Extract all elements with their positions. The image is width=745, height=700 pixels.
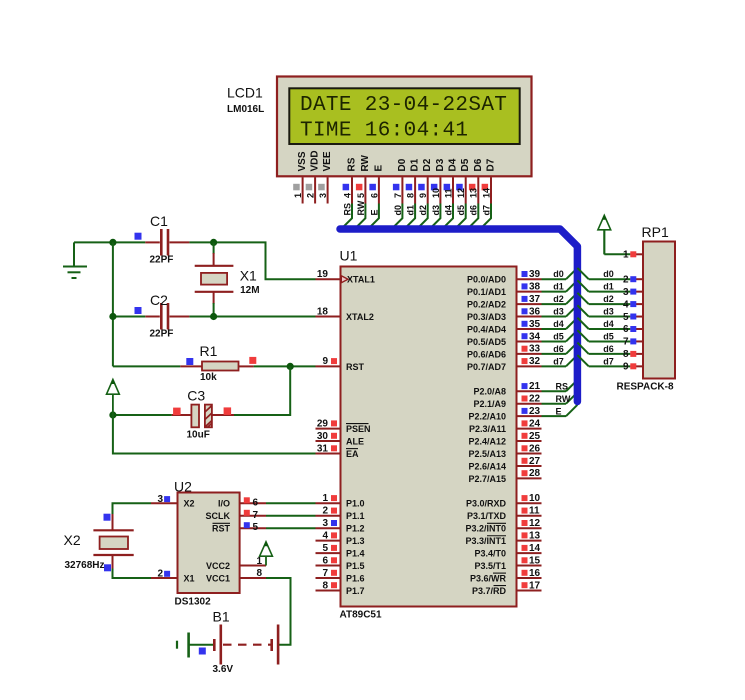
svg-text:25: 25 xyxy=(529,431,541,442)
U1 pin 16 P3.6/WR xyxy=(517,577,542,579)
svg-text:P1.2: P1.2 xyxy=(346,524,365,534)
svg-text:P0.2/AD2: P0.2/AD2 xyxy=(467,300,506,310)
U1 pin 15 P3.5/T1 xyxy=(517,565,542,567)
svg-text:d3: d3 xyxy=(553,307,564,317)
RP1 pin 4 xyxy=(630,303,643,305)
svg-text:P2.2/A10: P2.2/A10 xyxy=(468,412,506,422)
svg-text:d0: d0 xyxy=(553,269,564,279)
svg-text:22PF: 22PF xyxy=(150,329,174,340)
wire crystal to U2 X1 xyxy=(113,569,152,579)
svg-text:10: 10 xyxy=(431,188,441,198)
svg-text:RESPACK-8: RESPACK-8 xyxy=(617,382,674,393)
wire bus to RP1 pins xyxy=(577,268,588,279)
LCD pin 4 state square xyxy=(343,184,350,191)
wire U1 P0.1 to bus xyxy=(542,291,567,293)
wire X1 top stem xyxy=(213,242,215,254)
U1 pin 19 XTAL1 xyxy=(316,278,341,280)
wire LCD pin 7 to bus xyxy=(392,204,403,230)
svg-text:24: 24 xyxy=(529,418,541,429)
svg-text:38: 38 xyxy=(529,281,541,292)
U1 pin 27 P2.6/A14 xyxy=(517,465,542,467)
svg-text:d2: d2 xyxy=(553,294,564,304)
svg-text:1: 1 xyxy=(322,493,328,504)
svg-text:12: 12 xyxy=(456,188,466,198)
svg-text:4: 4 xyxy=(322,530,328,541)
U1 pin 33 P0.6/AD6 xyxy=(517,353,542,355)
wire U2 X2 to crystal xyxy=(113,503,152,515)
svg-text:E: E xyxy=(369,209,379,215)
svg-text:d2: d2 xyxy=(603,294,614,304)
svg-text:28: 28 xyxy=(529,468,541,479)
wire power to RP1 pin 1 xyxy=(603,230,605,255)
U1 pin 17 P3.7/RD xyxy=(517,589,542,591)
U2 pin 8 VCC1 xyxy=(240,577,266,579)
U1 pin 23 P2.2/A10 xyxy=(517,415,542,417)
svg-text:3.6V: 3.6V xyxy=(213,664,234,675)
U1 pin 29 PSEN xyxy=(316,428,341,430)
U1 pin 8 P1.7 xyxy=(316,589,341,591)
svg-text:E: E xyxy=(373,165,384,172)
svg-text:d4: d4 xyxy=(443,205,453,216)
svg-text:12: 12 xyxy=(529,518,541,529)
LCD pin 12 state square xyxy=(456,184,463,191)
svg-text:P2.3/A11: P2.3/A11 xyxy=(469,424,506,434)
U1 pin 39 P0.0/AD0 xyxy=(517,278,542,280)
svg-text:7: 7 xyxy=(253,510,259,521)
X2 state square bottom xyxy=(104,564,111,571)
svg-text:1: 1 xyxy=(293,193,303,198)
svg-text:d4: d4 xyxy=(553,319,564,329)
wire X1 bottom stem xyxy=(213,303,215,317)
LCD pin 11 stub xyxy=(452,177,454,203)
svg-text:10k: 10k xyxy=(200,372,217,383)
LCD pin 4 stub xyxy=(351,177,353,203)
U1 pin 35 P0.4/AD4 xyxy=(517,328,542,330)
svg-text:d2: d2 xyxy=(418,205,428,216)
wire LCD pin 14 to bus xyxy=(480,204,491,230)
svg-text:d6: d6 xyxy=(553,344,564,354)
svg-text:E: E xyxy=(556,407,562,417)
junction node A (C1 top-left) xyxy=(109,239,116,246)
svg-text:d3: d3 xyxy=(603,307,614,317)
svg-text:d3: d3 xyxy=(431,205,441,216)
svg-text:PSEN: PSEN xyxy=(346,424,371,434)
svg-text:3: 3 xyxy=(322,518,328,529)
wire LCD pin 10 to bus xyxy=(430,204,441,230)
wire U2 VCC1 to battery xyxy=(266,578,291,645)
battery B1 terminal stub xyxy=(176,641,178,649)
svg-text:P2.7/A15: P2.7/A15 xyxy=(468,474,506,484)
svg-text:C3: C3 xyxy=(187,388,205,404)
wire LCD pin 11 to bus xyxy=(442,204,453,230)
svg-text:7: 7 xyxy=(393,193,403,198)
U1 pin 24 P2.3/A11 xyxy=(517,428,542,430)
svg-text:P1.7: P1.7 xyxy=(346,586,365,596)
microcontroller U1 body xyxy=(341,267,517,607)
svg-text:D0: D0 xyxy=(397,158,408,171)
crystal X1 xyxy=(213,253,215,266)
wire U1 P0.7 to bus xyxy=(542,365,567,367)
wire U2 SCLK to U1 P1.1 xyxy=(266,515,316,517)
U1 pin 11 P3.1/TXD xyxy=(517,515,542,517)
wire LCD pin 12 to bus xyxy=(455,204,466,230)
svg-text:P3.6/WR: P3.6/WR xyxy=(470,573,507,583)
svg-text:P0.4/AD4: P0.4/AD4 xyxy=(467,324,506,334)
svg-text:LCD1: LCD1 xyxy=(227,85,263,101)
U1 pin 12 P3.2/INT0 xyxy=(517,527,542,529)
wire U1 P0.6 to bus xyxy=(542,353,567,355)
svg-text:P1.5: P1.5 xyxy=(346,561,365,571)
junction RST node xyxy=(287,363,294,370)
svg-text:U1: U1 xyxy=(340,248,358,264)
svg-text:d4: d4 xyxy=(603,319,614,329)
svg-text:32768Hz: 32768Hz xyxy=(65,560,105,571)
svg-text:RW: RW xyxy=(356,200,366,215)
svg-text:D3: D3 xyxy=(435,158,446,171)
svg-text:D7: D7 xyxy=(486,158,497,171)
wire U1 P0.3 to bus xyxy=(542,316,567,318)
wire LCD pin 8 to bus xyxy=(404,204,415,230)
svg-text:R1: R1 xyxy=(200,343,218,359)
LCD pin 8 state square xyxy=(406,184,413,191)
svg-text:27: 27 xyxy=(529,456,541,467)
svg-text:7: 7 xyxy=(623,337,629,348)
svg-text:RS: RS xyxy=(556,382,569,392)
U1 pin 31 EA xyxy=(316,453,341,455)
svg-text:D4: D4 xyxy=(448,158,459,171)
U2 pin 5 RST xyxy=(240,527,266,529)
svg-text:7: 7 xyxy=(322,568,328,579)
svg-text:3: 3 xyxy=(318,193,328,198)
svg-text:P2.6/A14: P2.6/A14 xyxy=(468,461,506,471)
svg-text:23: 23 xyxy=(529,406,541,417)
LCD pin 10 state square xyxy=(431,184,438,191)
svg-text:35: 35 xyxy=(529,319,541,330)
svg-text:U2: U2 xyxy=(174,479,192,495)
svg-text:EA: EA xyxy=(346,449,359,459)
svg-text:XTAL2: XTAL2 xyxy=(346,312,374,322)
B1 state square xyxy=(199,648,206,655)
U1 pin 5 P1.4 xyxy=(316,552,341,554)
svg-text:d0: d0 xyxy=(603,269,614,279)
svg-text:P2.5/A13: P2.5/A13 xyxy=(468,449,506,459)
svg-text:d6: d6 xyxy=(603,344,614,354)
svg-text:6: 6 xyxy=(369,193,379,198)
LCD pin 7 stub xyxy=(401,177,403,203)
svg-text:P3.3/INT1: P3.3/INT1 xyxy=(465,536,506,546)
LCD pin 9 state square xyxy=(418,184,425,191)
RP1 pin 9 xyxy=(630,365,643,367)
X2 state square top xyxy=(104,514,111,521)
LCD pin 8 stub xyxy=(414,177,416,203)
wire U2 RST to U1 P1.2 xyxy=(266,527,316,529)
U1 pin 13 P3.3/INT1 xyxy=(517,540,542,542)
svg-text:P2.0/A8: P2.0/A8 xyxy=(473,387,506,397)
wire U1 P0.2 to bus xyxy=(542,303,567,305)
svg-text:32: 32 xyxy=(529,356,541,367)
LCD1 screen xyxy=(289,88,519,144)
svg-text:4: 4 xyxy=(623,299,629,310)
C2 state square xyxy=(135,307,142,314)
svg-text:P3.7/RD: P3.7/RD xyxy=(472,586,507,596)
svg-text:P1.3: P1.3 xyxy=(346,536,365,546)
svg-text:30: 30 xyxy=(317,431,329,442)
junction C2 left xyxy=(109,313,116,320)
svg-text:VEE: VEE xyxy=(322,151,333,171)
junction X1 top xyxy=(210,239,217,246)
wire LCD pin 6 to bus xyxy=(368,204,379,230)
svg-text:XTAL1: XTAL1 xyxy=(347,275,375,285)
svg-text:2: 2 xyxy=(157,569,163,580)
U1 pin 2 P1.1 xyxy=(316,515,341,517)
LCD pin 3 state square xyxy=(318,184,325,191)
capacitor C1 xyxy=(145,241,160,243)
svg-text:11: 11 xyxy=(529,506,540,517)
svg-text:4: 4 xyxy=(342,193,352,198)
svg-text:2: 2 xyxy=(306,193,316,198)
svg-text:P0.6/AD6: P0.6/AD6 xyxy=(467,349,506,359)
wire U1 P2.1 (RW) to bus xyxy=(542,403,567,405)
svg-text:ALE: ALE xyxy=(346,436,364,446)
wire LCD pin 13 to bus xyxy=(468,204,479,230)
U1 pin 37 P0.2/AD2 xyxy=(517,303,542,305)
resistor pack RP1 body xyxy=(643,242,675,379)
svg-text:RW: RW xyxy=(360,154,371,171)
U1 pin 22 P2.1/A9 xyxy=(517,403,542,405)
svg-text:VCC1: VCC1 xyxy=(206,573,230,583)
U1 pin 6 P1.5 xyxy=(316,565,341,567)
LCD pin 1 state square xyxy=(293,184,300,191)
svg-text:d5: d5 xyxy=(603,331,614,341)
power arrow (C3 node) xyxy=(112,394,114,415)
svg-text:d1: d1 xyxy=(406,205,416,216)
wire R1 left xyxy=(113,365,180,367)
U1 pin 34 P0.5/AD5 xyxy=(517,340,542,342)
svg-text:31: 31 xyxy=(317,443,329,454)
resistor R1 xyxy=(180,365,202,367)
svg-text:9: 9 xyxy=(623,362,629,373)
svg-text:P3.5/T1: P3.5/T1 xyxy=(474,561,506,571)
svg-text:8: 8 xyxy=(256,568,262,579)
svg-text:X1: X1 xyxy=(240,268,257,284)
svg-text:P2.4/A12: P2.4/A12 xyxy=(468,436,506,446)
svg-text:d0: d0 xyxy=(393,205,403,216)
U1 pin 38 P0.1/AD1 xyxy=(517,291,542,293)
LCD pin 14 stub xyxy=(490,177,492,203)
wire U1 P0.5 to bus xyxy=(542,340,567,342)
LCD display LCD1 body xyxy=(277,77,532,177)
wire RST node down to C3 xyxy=(234,366,290,415)
RP1 pin 1 xyxy=(630,253,643,255)
svg-text:P2.1/A9: P2.1/A9 xyxy=(473,399,506,409)
svg-text:15: 15 xyxy=(529,555,541,566)
svg-text:D6: D6 xyxy=(473,158,484,171)
wire battery left xyxy=(189,644,215,646)
wire U1 P0.0 to bus xyxy=(542,278,567,280)
C3 state square right xyxy=(224,407,232,415)
LCD pin 5 stub xyxy=(364,177,366,203)
svg-text:RP1: RP1 xyxy=(642,224,669,240)
svg-text:D1: D1 xyxy=(410,158,421,171)
svg-text:DATE 23-04-22SAT: DATE 23-04-22SAT xyxy=(300,94,507,117)
svg-text:33: 33 xyxy=(529,344,541,355)
svg-text:9: 9 xyxy=(322,356,328,367)
battery B1 left plate (green) xyxy=(187,633,190,658)
svg-text:C2: C2 xyxy=(150,292,168,308)
svg-text:14: 14 xyxy=(481,188,491,198)
svg-text:SCLK: SCLK xyxy=(206,511,231,521)
svg-text:36: 36 xyxy=(529,306,541,317)
svg-text:29: 29 xyxy=(317,418,329,429)
LCD pin 6 stub xyxy=(378,177,380,203)
U1 pin 7 P1.6 xyxy=(316,577,341,579)
svg-text:DS1302: DS1302 xyxy=(175,597,212,608)
wire left column C1-C2-R1 xyxy=(112,242,114,366)
svg-text:P3.0/RXD: P3.0/RXD xyxy=(466,499,507,509)
svg-text:X2: X2 xyxy=(64,532,81,548)
svg-text:2: 2 xyxy=(623,274,629,285)
svg-text:d1: d1 xyxy=(553,282,564,292)
junction X1 bottom xyxy=(210,313,217,320)
svg-text:VCC2: VCC2 xyxy=(206,561,230,571)
wire C2 row to XTAL2 xyxy=(113,316,145,318)
svg-text:8: 8 xyxy=(322,580,328,591)
wire U1 P0.4 to bus xyxy=(542,328,567,330)
U1 pin 9 RST xyxy=(316,365,341,367)
LCD pin 11 state square xyxy=(444,184,451,191)
C3 state square left xyxy=(173,408,181,416)
junction C3 left node xyxy=(109,411,116,418)
U1 pin 18 XTAL2 xyxy=(316,316,341,318)
wire C3 node to EA xyxy=(113,415,316,454)
svg-text:5: 5 xyxy=(356,193,366,198)
RP1 pin 8 xyxy=(630,353,643,355)
R1 state square right xyxy=(249,357,256,364)
LCD pin 2 state square xyxy=(306,184,313,191)
svg-text:d7: d7 xyxy=(603,356,614,366)
svg-text:6: 6 xyxy=(253,497,259,508)
U1 pin 1 P1.0 xyxy=(316,502,341,504)
U1 pin 10 P3.0/RXD xyxy=(517,502,542,504)
svg-text:13: 13 xyxy=(529,530,541,541)
svg-text:6: 6 xyxy=(322,555,328,566)
svg-text:11: 11 xyxy=(443,188,453,198)
svg-text:10: 10 xyxy=(529,493,541,504)
svg-text:13: 13 xyxy=(469,188,479,198)
LCD pin 9 stub xyxy=(427,177,429,203)
LCD pin 14 state square xyxy=(482,184,489,191)
svg-text:P0.3/AD3: P0.3/AD3 xyxy=(467,312,506,322)
svg-text:8: 8 xyxy=(406,193,416,198)
LCD pin 7 state square xyxy=(393,184,400,191)
svg-text:18: 18 xyxy=(317,306,329,317)
svg-text:RS: RS xyxy=(347,157,358,171)
svg-text:B1: B1 xyxy=(213,609,230,625)
U2 pin 2 X1 xyxy=(151,577,178,579)
C1 state square xyxy=(135,233,142,240)
svg-text:12M: 12M xyxy=(240,285,259,296)
U1 pin 30 ALE xyxy=(316,440,341,442)
wire U1 P2.0 (RS) to bus xyxy=(542,390,567,392)
wire C3 left xyxy=(113,414,172,416)
svg-text:RST: RST xyxy=(346,362,365,372)
svg-text:39: 39 xyxy=(529,269,541,280)
svg-text:9: 9 xyxy=(418,193,428,198)
svg-text:RS: RS xyxy=(342,203,352,216)
svg-text:22: 22 xyxy=(529,394,541,405)
svg-text:P0.0/AD0: P0.0/AD0 xyxy=(467,275,506,285)
wire R1 to RST xyxy=(254,365,316,367)
svg-text:1: 1 xyxy=(256,556,262,567)
LCD pin 10 stub xyxy=(439,177,441,203)
svg-text:d1: d1 xyxy=(603,282,614,292)
svg-text:P3.1/TXD: P3.1/TXD xyxy=(467,511,507,521)
capacitor C2 xyxy=(145,316,160,318)
U1 pin 14 P3.4/T0 xyxy=(517,552,542,554)
svg-text:P0.5/AD5: P0.5/AD5 xyxy=(467,337,506,347)
svg-text:16: 16 xyxy=(529,568,541,579)
svg-text:5: 5 xyxy=(623,312,629,323)
svg-text:P1.4: P1.4 xyxy=(346,549,365,559)
wire LCD pin 5 to bus xyxy=(355,204,366,230)
svg-text:P3.2/INT0: P3.2/INT0 xyxy=(465,524,506,534)
U2 pin 1 VCC2 xyxy=(240,565,266,567)
R1 state square left xyxy=(186,358,193,365)
wire LCD pin 9 to bus xyxy=(417,204,428,230)
svg-text:AT89C51: AT89C51 xyxy=(340,610,382,621)
svg-text:RST: RST xyxy=(212,524,231,534)
LCD pin 5 state square xyxy=(356,184,363,191)
svg-text:2: 2 xyxy=(322,506,328,517)
svg-text:VSS: VSS xyxy=(297,151,308,171)
svg-text:P1.0: P1.0 xyxy=(346,499,365,509)
U1 pin 25 P2.4/A12 xyxy=(517,440,542,442)
LCD pin 12 stub xyxy=(465,177,467,203)
svg-text:P1.6: P1.6 xyxy=(346,573,365,583)
svg-text:P1.1: P1.1 xyxy=(346,511,365,521)
svg-text:3: 3 xyxy=(157,494,163,505)
U2 pin 3 X2 xyxy=(151,502,178,504)
wire U2 I/O to U1 P1.0 xyxy=(266,502,316,504)
RTC U2 body xyxy=(178,493,240,594)
svg-text:37: 37 xyxy=(529,294,541,305)
wire U1 P2.2 (E) to bus xyxy=(542,415,567,417)
svg-text:D2: D2 xyxy=(422,158,433,171)
RP1 pin 6 xyxy=(630,328,643,330)
svg-text:X1: X1 xyxy=(184,573,195,583)
U1 pin 32 P0.7/AD7 xyxy=(517,365,542,367)
wire ground to C1 xyxy=(74,241,145,243)
LCD pin 6 state square xyxy=(369,184,376,191)
RP1 pin 7 xyxy=(630,340,643,342)
svg-text:d6: d6 xyxy=(469,205,479,216)
LCD pin 13 state square xyxy=(469,184,476,191)
U1 pin 28 P2.7/A15 xyxy=(517,477,542,479)
U1 pin 3 P1.2 xyxy=(316,527,341,529)
svg-text:26: 26 xyxy=(529,443,541,454)
U1 pin 36 P0.3/AD3 xyxy=(517,316,542,318)
svg-text:P3.4/T0: P3.4/T0 xyxy=(474,549,506,559)
svg-text:14: 14 xyxy=(529,543,541,554)
power arrow (U2 VCC2) xyxy=(265,556,267,565)
svg-text:5: 5 xyxy=(322,543,328,554)
svg-text:21: 21 xyxy=(529,381,541,392)
U2 pin 6 I/O xyxy=(240,502,266,504)
svg-text:5: 5 xyxy=(253,522,259,533)
svg-text:d5: d5 xyxy=(553,331,564,341)
bus (blue) xyxy=(340,229,577,402)
svg-text:17: 17 xyxy=(529,580,541,591)
